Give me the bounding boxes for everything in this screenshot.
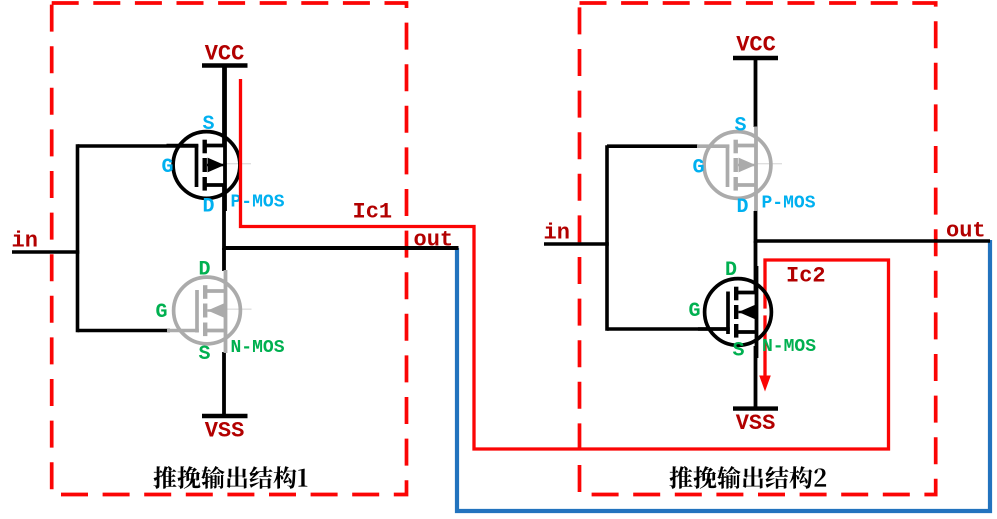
- svg-text:D: D: [199, 259, 211, 282]
- svg-text:Ic1: Ic1: [353, 200, 393, 225]
- wire: N-MOS2 drain from out node: [754, 241, 758, 293]
- svg-text:VCC: VCC: [736, 33, 776, 58]
- svg-text:S: S: [735, 115, 747, 138]
- arrowhead: Ic2 current into VSS2: [759, 376, 771, 392]
- svg-text:VSS: VSS: [736, 411, 776, 436]
- wire: N-MOS2 source to VSS: [754, 346, 758, 409]
- wire P-MOS1 drain to out node: [222, 184, 226, 250]
- dashed box: push-pull structure 2: [580, 3, 936, 495]
- svg-text:G: G: [162, 156, 174, 179]
- wire: gate bus structure 1: [76, 144, 80, 332]
- wire VCC2 to P-MOS2 source: [754, 58, 758, 127]
- wire P-MOS2 drain to out node: [754, 211, 758, 243]
- svg-text:G: G: [693, 157, 705, 180]
- svg-text:out: out: [414, 228, 454, 253]
- VCC rail structure 2: [733, 56, 778, 60]
- caption: push-pull output structure 1 (Chinese): [153, 466, 307, 489]
- VSS rail structure 1: [202, 414, 248, 419]
- svg-text:P-MOS: P-MOS: [762, 194, 816, 214]
- transistor P-MOS Q1 (active, black): [167, 66, 252, 212]
- wire: N-MOS1 source to VSS: [222, 352, 226, 416]
- svg-text:S: S: [733, 340, 745, 363]
- wire: gate of P-MOS2: [607, 144, 698, 148]
- wire: gate of N-MOS1: [78, 329, 171, 333]
- wire: N-MOS1 drain from out node: [222, 248, 226, 271]
- transistor N-MOS Q2 (inactive, gray): [167, 270, 252, 353]
- wire: gate of P-MOS1: [78, 144, 199, 148]
- wire: blue connection from out1 to out2: [457, 240, 990, 511]
- wire: input net structure 1: [12, 250, 79, 254]
- caption: push-pull output structure 2 (Chinese): [669, 466, 826, 489]
- svg-text:VSS: VSS: [205, 419, 245, 444]
- wire: gate bus structure 2: [605, 145, 609, 331]
- svg-text:P-MOS: P-MOS: [231, 193, 285, 213]
- svg-text:D: D: [725, 259, 737, 282]
- wire: output net structure 1: [224, 246, 459, 250]
- svg-text:N-MOS: N-MOS: [231, 338, 285, 358]
- svg-text:S: S: [199, 343, 211, 366]
- VCC rail structure 1: [202, 63, 248, 68]
- wire: input net structure 2: [544, 242, 609, 246]
- svg-text:G: G: [156, 301, 168, 324]
- wire: output net structure 2: [756, 239, 991, 243]
- svg-text:in: in: [544, 221, 570, 246]
- wire: gate of N-MOS2: [607, 327, 729, 331]
- svg-text:D: D: [737, 196, 749, 219]
- wire: red current path Ic1/Ic2 from VCC1 to VSS2: [241, 79, 889, 449]
- svg-text:S: S: [203, 113, 215, 136]
- svg-text:N-MOS: N-MOS: [762, 337, 816, 357]
- transistor N-MOS Q4 (active, black): [698, 266, 771, 358]
- svg-text:G: G: [689, 300, 701, 323]
- svg-text:out: out: [946, 219, 986, 244]
- transistor P-MOS Q3 (inactive, gray): [697, 127, 782, 212]
- svg-text:Ic2: Ic2: [786, 264, 826, 289]
- wire VCC1 to P-MOS source: [222, 66, 226, 147]
- svg-text:VCC: VCC: [205, 42, 245, 67]
- VSS rail structure 2: [733, 406, 778, 410]
- svg-text:D: D: [203, 196, 215, 219]
- dashed box: push-pull structure 1: [52, 3, 407, 495]
- svg-text:in: in: [12, 229, 38, 254]
